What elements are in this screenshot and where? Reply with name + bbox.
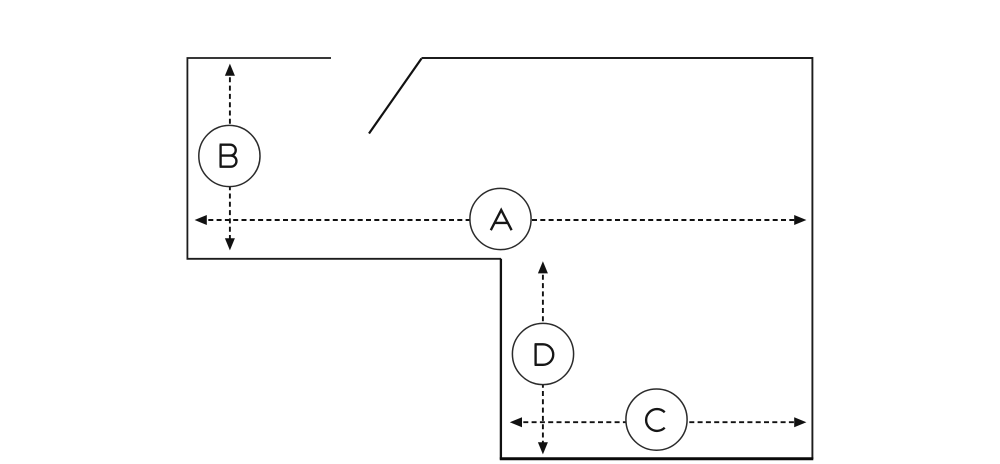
wire: left edge, top-left edge, step edge of L-outline bbox=[187, 58, 501, 259]
node D dashed dimension arrow (vertical, lower depth) bbox=[538, 261, 548, 454]
wire: bottom edge (thick) bbox=[500, 457, 814, 460]
wire: top edge right of break and right edge bbox=[422, 58, 813, 459]
node C circle label bbox=[626, 389, 687, 450]
node A dashed dimension arrow (horizontal, full width) bbox=[195, 215, 807, 225]
node C dashed dimension arrow (horizontal, lower width) bbox=[510, 417, 807, 427]
wire: lower-left vertical edge bbox=[500, 259, 502, 460]
node A circle label bbox=[470, 188, 531, 249]
node B circle label bbox=[199, 125, 260, 186]
wire: diagonal break line bbox=[369, 59, 422, 134]
node D circle label bbox=[512, 323, 573, 384]
node B dashed dimension arrow (vertical, upper-left depth) bbox=[225, 64, 235, 251]
